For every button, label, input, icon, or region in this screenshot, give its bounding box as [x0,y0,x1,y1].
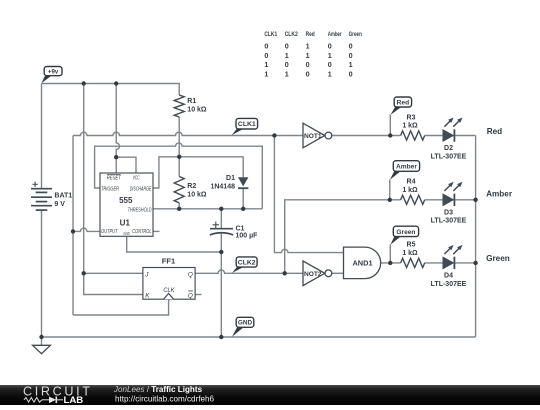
svg-text:VCC: VCC [133,175,140,181]
svg-text:OUTPUT: OUTPUT [101,229,118,235]
op 555 timer U1 box [100,173,153,236]
LED D2 [443,130,453,141]
gate NOT2 [303,261,325,286]
svg-text:Red: Red [487,127,502,136]
wire R2 bottom lead [178,203,180,209]
svg-text:0: 0 [328,60,332,69]
svg-text:+9v: +9v [48,69,59,76]
node Amber flag [393,161,419,172]
svg-text:R5: R5 [407,242,416,249]
ground [33,345,51,353]
wire 555 TRIGGER to THRESHOLD loop [95,143,263,209]
svg-text:FF1: FF1 [162,256,176,265]
wire FF1 clock feed [73,299,169,315]
svg-text:Amber: Amber [328,31,342,38]
wire 555 CONTROL stub [153,230,160,232]
wire R3 to D2 [425,135,443,137]
svg-text:LTL-307EE: LTL-307EE [431,153,467,160]
svg-text:CLK2: CLK2 [238,259,256,266]
wire D2 to rail [455,135,475,137]
wire 555 DISCHARGE to R1/R2 node [153,157,243,188]
wire CLK2 net (FF1 Q to NOT2) [195,270,303,273]
wire R1 bottom lead [178,117,180,176]
wire R1 top lead [178,93,180,96]
svg-text:D2: D2 [444,145,453,152]
svg-text:LTL-307EE: LTL-307EE [431,281,467,288]
svg-text:9 V: 9 V [54,201,65,208]
LED D4 [443,257,453,268]
svg-text:GND: GND [123,231,130,236]
LED D3 [443,194,453,205]
svg-text:1: 1 [306,42,310,51]
svg-text:0: 0 [328,42,332,51]
wire CLK1 net horizontal (555 output to NOT1) [73,132,303,135]
svg-text:555: 555 [119,196,133,205]
diode D1 [238,177,248,186]
svg-text:CLK: CLK [163,287,175,294]
svg-text:0: 0 [349,51,353,60]
svg-text:1: 1 [285,51,289,60]
wire CLK1 vertical left riser [72,136,74,316]
svg-text:D4: D4 [444,272,453,279]
wire Green flag lead [389,245,391,263]
wire right LED return rail [475,136,477,338]
svg-text:1: 1 [264,60,268,69]
wire battery bottom lead to ground [41,210,43,345]
wire AND1 output to R5 [381,262,401,264]
svg-text:0: 0 [264,42,268,51]
svg-text:0: 0 [285,42,289,51]
svg-text:LTL-307EE: LTL-307EE [431,218,467,225]
svg-text:1 kΩ: 1 kΩ [402,123,418,130]
wire NOT2 output to AND1 [332,272,344,274]
svg-text:CLK2: CLK2 [285,31,299,38]
wire FF1 K tie [84,273,143,294]
battery BAT1 [31,188,52,190]
svg-text:1N4148: 1N4148 [210,184,235,191]
svg-text:0: 0 [264,51,268,60]
wire R5 to D4 [425,262,443,264]
capacitor C1 [210,228,233,230]
svg-text:C1: C1 [236,225,245,232]
svg-text:1: 1 [328,69,332,78]
svg-text:CONTROL: CONTROL [132,229,152,235]
svg-text:NOT2: NOT2 [304,271,322,278]
svg-text:1: 1 [328,51,332,60]
wire +9v rail [42,84,180,93]
svg-text:10 kΩ: 10 kΩ [187,107,207,114]
wire D4 to rail [455,262,475,264]
svg-text:1: 1 [349,60,353,69]
svg-text:D1: D1 [226,175,235,182]
wire C1 bottom lead to ground rail [220,233,222,337]
node junction dots [82,81,86,85]
svg-text:0: 0 [306,69,310,78]
svg-text:CLK1: CLK1 [238,121,256,128]
flip-flop FF1 box [143,268,195,300]
svg-text:0: 0 [349,42,353,51]
555 pin labels [107,174,121,176]
svg-text:RESET: RESET [107,175,122,181]
wire D3 to rail [455,199,475,201]
wire 555 OUTPUT stub [73,228,100,231]
svg-text:CLK1: CLK1 [264,31,277,38]
wire +9v drop to FF1 J [84,84,143,274]
svg-text:K: K [145,293,150,300]
wire Red flag lead [389,115,391,136]
wire C1 top lead [220,209,222,229]
svg-text:Q: Q [188,271,193,278]
resistor R3 [401,131,425,140]
node Red flag [394,97,411,107]
wire ground rail [42,336,476,338]
wire Amber flag lead [389,180,391,200]
svg-text:Amber: Amber [396,163,417,170]
svg-text:1 kΩ: 1 kΩ [402,250,418,257]
svg-text:Green: Green [486,254,510,263]
svg-text:1: 1 [264,69,268,78]
svg-text:NOT1: NOT1 [304,133,322,140]
svg-text:Green: Green [396,229,415,236]
svg-text:DISCHARGE: DISCHARGE [130,187,152,193]
resistor R4 [401,195,425,204]
wire 555 VCC tie [116,157,136,173]
svg-text:R2: R2 [187,183,196,190]
svg-text:R3: R3 [407,114,416,121]
svg-text:Red: Red [397,99,409,106]
resistor R2 [174,176,184,203]
node Green flag [393,226,418,236]
gate NOT1 [303,123,325,148]
svg-text:1: 1 [306,51,310,60]
gate AND1 [344,247,381,279]
svg-text:0: 0 [306,60,310,69]
svg-text:R1: R1 [187,98,196,105]
wire 555 GND to ground net [127,236,222,252]
svg-text:1: 1 [285,69,289,78]
svg-text:http://circuitlab.com/cdrfeh6: http://circuitlab.com/cdrfeh6 [115,394,214,403]
svg-text:THRESHOLD: THRESHOLD [128,207,152,213]
wire +9v drop to 555 RESET [116,84,119,174]
node GND flag [236,317,254,327]
svg-text:TRIGGER: TRIGGER [101,187,119,193]
wire R4 to D3 [425,199,443,201]
wire D1 cathode lead [242,188,244,209]
svg-text:Red: Red [306,31,315,38]
svg-text:10 kΩ: 10 kΩ [187,191,207,198]
svg-text:Green: Green [349,31,362,38]
svg-text:JonLees / Traffic Lights: JonLees / Traffic Lights [113,385,203,394]
svg-text:D3: D3 [444,209,453,216]
svg-text:0: 0 [285,60,289,69]
svg-text:LAB: LAB [64,395,84,405]
svg-text:R4: R4 [407,179,416,186]
wire battery top lead [41,84,43,189]
wire NOT1 output to R3 [332,135,401,137]
node CLK1 flag [236,118,258,129]
wire THRESHOLD line [153,208,262,210]
svg-text:U1: U1 [120,219,131,228]
wire CLK1 branch to AND1 input [274,136,343,253]
svg-text:AND1: AND1 [352,259,372,268]
svg-text:Q: Q [188,293,193,300]
svg-text:GND: GND [238,320,253,327]
svg-text:Amber: Amber [486,190,513,199]
svg-text:BAT1: BAT1 [54,193,72,200]
resistor R1 [174,95,184,117]
svg-text:100 µF: 100 µF [236,232,259,239]
resistor R5 [401,258,425,267]
node CLK2 flag [236,257,257,267]
svg-text:1 kΩ: 1 kΩ [402,187,418,194]
wire FF1 Qbar stub [195,294,201,296]
node +9v flag [44,67,62,76]
svg-text:0: 0 [349,69,353,78]
wire CLK2 riser to amber row [285,200,401,273]
